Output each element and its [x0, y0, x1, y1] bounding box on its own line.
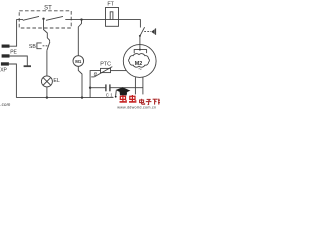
wire: left entry into ST from plug pin L — [10, 20, 24, 47]
plug XP pin N — [1, 62, 9, 65]
svg-text:FT: FT — [107, 2, 114, 8]
wire: PTC to left drop column — [90, 71, 100, 98]
wire: M2 main winding lead to bus — [134, 77, 136, 98]
bottom bus wire — [16, 97, 136, 99]
node: M2 bracket dot — [139, 49, 141, 51]
wire: capacitor C1 right lead — [110, 87, 143, 89]
motor M1 — [73, 56, 84, 67]
svg-text:EL: EL — [53, 78, 59, 84]
node: capacitor tap dot — [89, 87, 91, 89]
svg-text:C 1: C 1 — [106, 93, 113, 98]
wire: switch to motor M2 — [139, 36, 141, 45]
watermark white backing — [114, 94, 161, 110]
svg-text:M1: M1 — [75, 59, 82, 64]
wire: PE pin to ground — [10, 56, 28, 66]
thermostat ST dashed box — [19, 11, 71, 28]
switch blade 1 of ST — [23, 16, 39, 20]
wire: M1 to bottom bus — [78, 66, 82, 97]
svg-text:~: ~ — [138, 66, 142, 73]
motor M2 circle — [123, 45, 156, 78]
thermal fuse FT box — [106, 8, 119, 27]
lamp EL — [41, 76, 52, 87]
switch blade 2 of ST — [46, 16, 63, 20]
push-button SB blade — [47, 42, 50, 51]
wire: M2 start winding lead — [142, 77, 144, 98]
node: EL bottom bus dot — [46, 96, 48, 98]
link end bar — [155, 28, 157, 34]
watermark char chong 2 (vector) — [129, 95, 136, 102]
svg-text:SB: SB — [29, 44, 36, 50]
node: top bus junction dot feeding M1 — [80, 18, 82, 20]
switch link dashes — [144, 31, 151, 33]
svg-text:XP: XP — [0, 68, 7, 74]
node: switch lower contact dot — [139, 35, 141, 37]
wire: top bus from ST exit to FT and corner at right — [65, 20, 140, 28]
PTC strike foot — [91, 76, 94, 78]
wire: mid-tap drop from ST to push-button SB — [44, 19, 50, 42]
plug XP pin L — [2, 45, 10, 48]
node: M1 bottom bus dot — [81, 96, 83, 98]
wire: capacitor C1 left lead — [90, 87, 106, 89]
watermark char zi (vector) — [146, 99, 152, 104]
watermark char xia (vector) — [153, 99, 158, 104]
push-button SB actuator bracket — [37, 43, 42, 49]
svg-text:.com: .com — [0, 102, 10, 107]
ground bar — [24, 65, 31, 67]
node: ST mid-tap junction dot — [42, 18, 44, 20]
link arrowhead — [151, 29, 155, 34]
watermark char dian (vector) — [140, 99, 145, 104]
svg-text:PE: PE — [10, 50, 17, 56]
svg-text:ST: ST — [44, 5, 52, 11]
svg-text:θ: θ — [94, 72, 97, 78]
wire: PTC to M2 — [111, 70, 127, 72]
wire: SB to lamp EL — [46, 50, 48, 76]
watermark char chong 1 (vector) — [120, 95, 127, 102]
svg-text:www.ddworld.com.cn: www.ddworld.com.cn — [117, 105, 156, 109]
M2 rotor bracket — [134, 50, 146, 54]
centrifugal switch blade (to M2) — [140, 27, 145, 36]
PTC strike line — [94, 67, 112, 77]
wire: N pin to bottom bus — [9, 64, 17, 98]
PTC thermistor body — [101, 68, 111, 72]
wire: circle top to bracket — [139, 45, 141, 50]
SB mechanical link dashes — [43, 45, 49, 47]
plug XP pin PE — [2, 54, 10, 57]
capacitor C1 plates — [105, 84, 107, 91]
watermark mortarboard icon — [115, 87, 131, 97]
svg-text:PTC: PTC — [100, 61, 111, 67]
watermark char zai partial at edge (vector) — [158, 99, 160, 105]
FT element bump — [110, 12, 113, 20]
wire: EL to bottom bus — [46, 87, 48, 98]
M2 stator winding cloud — [129, 54, 150, 68]
wire: bus to motor M1 — [78, 20, 81, 56]
